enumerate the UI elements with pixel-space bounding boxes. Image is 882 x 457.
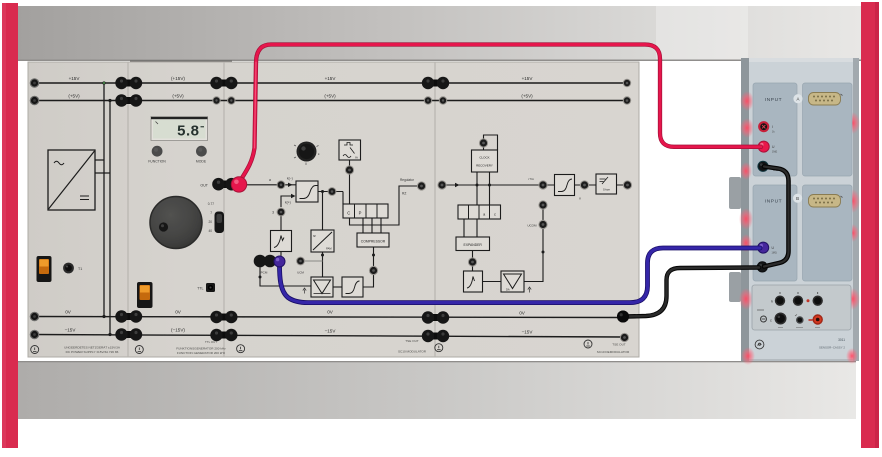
svg-text:k(−): k(−) xyxy=(287,177,293,181)
svg-text:OUT: OUT xyxy=(200,184,208,188)
svg-text:3011: 3011 xyxy=(838,338,845,342)
bridging plug 0V seam1 xyxy=(115,310,142,322)
wire filter to PCM socket xyxy=(280,252,282,257)
plug black at 0V rail xyxy=(617,311,629,323)
frame top rail xyxy=(14,6,862,61)
limiter block 2 xyxy=(342,277,363,297)
svg-text:EXPANDER: EXPANDER xyxy=(463,243,482,247)
socket clock recovery top xyxy=(479,138,488,147)
svg-text:0V: 0V xyxy=(65,310,72,315)
svg-text:20: 20 xyxy=(208,220,212,224)
socket A ground plugged black xyxy=(757,161,768,172)
socket OUT bridging plug xyxy=(215,181,236,189)
mounting tab left upper xyxy=(729,177,741,209)
wire converter to bus xyxy=(95,160,110,173)
connector dsub A xyxy=(809,93,843,106)
socket +15V right end xyxy=(623,79,631,87)
wire clock recovery verticals xyxy=(477,172,490,205)
section box input B dsub xyxy=(803,185,853,281)
socket limiter out xyxy=(328,187,337,196)
svg-text:−15V: −15V xyxy=(65,328,77,333)
ground clamp card2 xyxy=(135,346,143,354)
wire input branch to socket 3 xyxy=(281,196,292,231)
arrow input xyxy=(288,183,293,187)
register bank card4 xyxy=(458,205,501,219)
wire +15V rail xyxy=(34,82,627,84)
filter block sample hold xyxy=(271,231,292,252)
svg-text:5.8: 5.8 xyxy=(177,123,199,140)
svg-text:(+5V): (+5V) xyxy=(172,94,184,99)
svg-text:DA: DA xyxy=(506,288,510,292)
frame right column xyxy=(861,2,879,448)
main experiment panel background xyxy=(28,62,639,357)
bridging plug +5V seam1 xyxy=(115,94,142,106)
socket +5V left end xyxy=(30,96,40,106)
svg-text:7: 7 xyxy=(210,211,212,215)
socket expander out xyxy=(468,257,477,266)
socket card4 output xyxy=(623,180,632,189)
compressor block xyxy=(357,233,389,247)
register bank C P xyxy=(343,204,388,218)
switch S1 mains rocker xyxy=(37,256,52,282)
wire serializer link xyxy=(333,286,342,288)
wire registers to expander xyxy=(464,219,477,237)
svg-text:P: P xyxy=(359,211,362,216)
cable black link lead xyxy=(764,167,789,267)
svg-text:40: 40 xyxy=(208,229,212,233)
socket compressor chain xyxy=(369,266,378,275)
bridging plug -15V seam1 xyxy=(115,328,142,340)
svg-text:c: c xyxy=(494,213,496,217)
svg-text:a: a xyxy=(269,178,271,182)
expander block xyxy=(456,237,490,251)
section box input A dsub xyxy=(803,83,853,176)
badge A xyxy=(793,94,802,103)
cable blue measurement lead xyxy=(280,248,761,303)
DA converter block xyxy=(501,271,524,292)
ground clamp card4 xyxy=(584,340,592,348)
wire card1 +15V feed xyxy=(103,83,105,317)
wire compressor to expander chain xyxy=(363,247,374,287)
node junctions card4 xyxy=(476,184,479,187)
svg-text:DC POWER SUPPLY ±15V/3A 726 8: DC POWER SUPPLY ±15V/3A 726 86 xyxy=(66,350,119,354)
svg-text:T1: T1 xyxy=(78,267,82,271)
svg-text:TTL OUT: TTL OUT xyxy=(205,340,217,344)
bridging plug +15V seam3 xyxy=(422,77,449,89)
filter block card4 xyxy=(464,271,483,292)
connector dsub B xyxy=(809,195,843,208)
svg-text:S-korr: S-korr xyxy=(603,188,610,192)
svg-text:(+5V): (+5V) xyxy=(324,94,336,99)
svg-text:MODE: MODE xyxy=(196,160,207,164)
svg-text:1MΩ: 1MΩ xyxy=(772,252,777,255)
svg-text:FUNCTION GENERATOR 200 kHz: FUNCTION GENERATOR 200 kHz xyxy=(177,351,226,355)
clock recovery block xyxy=(472,150,498,172)
socket B voltage plugged violet xyxy=(757,242,769,254)
svg-text:+15V: +15V xyxy=(522,76,534,81)
section box input A left xyxy=(753,83,797,176)
label card4 type text xyxy=(597,343,630,355)
ground clamp card3 right xyxy=(435,344,443,352)
socket -15V right end xyxy=(620,333,629,342)
svg-text:SC10 MODULATOR: SC10 MODULATOR xyxy=(398,350,427,354)
wire sigmoid to out xyxy=(575,184,629,186)
bridging plug 0V seam3 xyxy=(422,311,449,323)
svg-text:c: c xyxy=(770,319,772,323)
svg-text:RZ: RZ xyxy=(402,192,406,196)
wire clock to register xyxy=(349,160,351,204)
PAM sampler block xyxy=(311,230,334,252)
socket +5V seam2 pair open xyxy=(212,96,220,104)
frame left column xyxy=(2,3,18,448)
node junctions card3 xyxy=(321,190,324,193)
label card2 type text xyxy=(176,347,226,355)
glyph antenna mark card4 xyxy=(528,287,531,293)
cable red measurement lead xyxy=(240,45,761,182)
svg-text:+15V: +15V xyxy=(69,76,81,81)
clock generator block G1 xyxy=(339,140,361,160)
wire PAM to serializer xyxy=(322,252,324,277)
svg-text:−15V: −15V xyxy=(325,329,337,334)
socket -15V left end xyxy=(30,330,40,340)
wire input a to limiter xyxy=(244,184,296,186)
wire clock recovery loop xyxy=(484,135,498,150)
svg-text:Regulator: Regulator xyxy=(400,178,415,182)
svg-text:k: k xyxy=(771,299,773,303)
svg-text:UCOM: UCOM xyxy=(527,224,537,228)
wire UCM stub xyxy=(304,260,323,262)
ground clamp card3 xyxy=(237,345,245,353)
svg-text:TSE OUT: TSE OUT xyxy=(405,339,419,343)
svg-text:(+5V): (+5V) xyxy=(521,94,533,99)
svg-text:C: C xyxy=(347,211,350,216)
svg-text:UCM: UCM xyxy=(297,271,304,275)
led glow strip right xyxy=(846,112,860,364)
card seam 2 xyxy=(223,62,224,357)
svg-text:INPUT: INPUT xyxy=(765,97,782,103)
socket B ground plugged black xyxy=(757,261,768,272)
wire filter to DA xyxy=(483,281,502,283)
svg-text:A: A xyxy=(797,97,800,102)
svg-text:FUNCTION: FUNCTION xyxy=(148,160,166,164)
card seam 3 xyxy=(434,62,435,357)
svg-text:INPUT: INPUT xyxy=(765,199,782,205)
knob frequency xyxy=(150,197,202,249)
socket 0V right end plugged xyxy=(617,311,629,323)
frame bottom rail xyxy=(18,361,856,419)
svg-text:SENSOR–CASSY 2: SENSOR–CASSY 2 xyxy=(819,346,845,350)
svg-text:0V: 0V xyxy=(327,310,334,315)
button MODE xyxy=(196,146,207,157)
logo badge xyxy=(755,340,764,349)
plug red at generator OUT xyxy=(231,176,247,192)
socket A voltage plugged red xyxy=(758,141,770,153)
knob level small xyxy=(297,142,317,162)
ground clamp card1 xyxy=(31,346,39,354)
socket PCM out plugged bridge xyxy=(256,257,273,265)
deemphasis block xyxy=(596,174,617,194)
button FUNCTION xyxy=(152,146,163,157)
converter U1 AC/DC block xyxy=(48,150,95,210)
svg-text:TTL: TTL xyxy=(197,287,203,291)
svg-text:0V: 0V xyxy=(175,310,182,315)
svg-text:PCM: PCM xyxy=(261,271,268,275)
wire card1 -15V feed xyxy=(109,101,111,335)
label card3 type text xyxy=(398,339,427,354)
wire limiter out xyxy=(318,192,343,205)
card seam 1 xyxy=(127,62,128,357)
socket regulator xyxy=(417,181,426,190)
bridging plug +15V seam2 xyxy=(210,77,237,89)
svg-text:COMPRESSOR: COMPRESSOR xyxy=(361,240,386,244)
output sockets row 2 xyxy=(757,309,764,311)
wire registers to compressor xyxy=(363,218,381,233)
wire register to regulator RZ xyxy=(350,186,419,225)
socket card3 input xyxy=(277,180,286,189)
svg-text:(+15V): (+15V) xyxy=(171,76,185,81)
svg-text:PAM: PAM xyxy=(326,247,331,251)
section box input B left xyxy=(753,185,797,281)
bridging plug -15V seam3 xyxy=(422,330,449,342)
wire DA to feedback xyxy=(524,208,543,282)
serializer DA block xyxy=(311,277,333,297)
socket +5V seam3 pair open xyxy=(424,96,432,104)
wire expander down xyxy=(472,251,474,272)
bridging plug +15V seam1 xyxy=(115,77,142,89)
display LCD xyxy=(151,117,208,141)
socket 0V left end xyxy=(30,312,40,322)
svg-text:TSE OUT: TSE OUT xyxy=(612,343,626,347)
connector T1 xyxy=(63,263,74,274)
svg-text:RECOVERY: RECOVERY xyxy=(476,164,493,168)
section box outputs xyxy=(752,285,851,330)
svg-text:fA: fA xyxy=(355,156,358,160)
socket card4 input xyxy=(437,180,446,189)
socket line mid xyxy=(538,180,547,189)
wire to PAM block xyxy=(322,192,324,231)
module body xyxy=(741,58,859,361)
node junction dots card1 xyxy=(102,81,105,84)
bridging plug -15V seam2 xyxy=(210,329,237,341)
socket feedback top xyxy=(538,200,547,209)
shadow card2 top edge xyxy=(130,60,232,61)
svg-text:I: I xyxy=(772,125,773,129)
bridging plug 0V seam2 xyxy=(210,311,237,323)
socket +5V right end xyxy=(623,96,631,104)
glyph antenna mark xyxy=(303,288,306,294)
arrow card4 input xyxy=(455,183,460,187)
cable black ground lead xyxy=(626,268,759,317)
wire -15V rail xyxy=(34,335,624,338)
limiter block out xyxy=(555,175,575,196)
wire 0V rail xyxy=(34,317,623,318)
limiter block A1 xyxy=(296,181,318,202)
socket UCM xyxy=(296,257,305,266)
svg-text:fZ: fZ xyxy=(313,234,316,238)
svg-text:k(+): k(+) xyxy=(285,201,291,205)
svg-text:0.77: 0.77 xyxy=(208,202,214,206)
svg-text:3: 3 xyxy=(272,211,274,215)
svg-text:(+5V): (+5V) xyxy=(68,94,80,99)
plug violet at PCM out xyxy=(274,256,286,268)
wire PCM output loop xyxy=(260,266,311,286)
svg-text:CLOCK: CLOCK xyxy=(479,156,489,160)
svg-text:+15V: +15V xyxy=(325,76,337,81)
svg-text:i.Tlm: i.Tlm xyxy=(528,177,535,181)
svg-text:SC10 DEMODULATOR: SC10 DEMODULATOR xyxy=(597,350,630,354)
svg-text:B: B xyxy=(796,196,799,201)
led glow strip left xyxy=(739,91,755,365)
wire +5V rail xyxy=(34,100,627,102)
switch TTL rocker xyxy=(137,282,153,308)
svg-text:−15V: −15V xyxy=(522,330,534,335)
svg-text:(−15V): (−15V) xyxy=(171,328,185,333)
socket +15V left end xyxy=(30,78,40,88)
label card1 type text xyxy=(64,346,121,354)
socket after limiter xyxy=(580,180,589,189)
socket A current red ring xyxy=(758,121,769,132)
socket clock xyxy=(345,165,354,174)
mounting tab left lower xyxy=(729,272,741,302)
svg-text:0V: 0V xyxy=(519,311,526,316)
badge B xyxy=(793,194,802,203)
wire main line card4 xyxy=(446,184,555,186)
svg-text:1MΩ: 1MΩ xyxy=(772,151,777,154)
